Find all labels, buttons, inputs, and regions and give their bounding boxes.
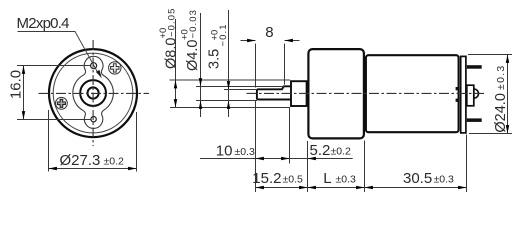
svg-text:10: 10 — [216, 142, 233, 159]
inner circle — [53, 53, 133, 133]
dim Ø24 line — [507, 55, 509, 134]
can crimp notch upper — [456, 87, 460, 90]
ext motor face vertical — [364, 141, 366, 193]
svg-text:±0.5: ±0.5 — [283, 174, 304, 186]
svg-text:±0.3: ±0.3 — [495, 64, 507, 90]
dim 15.2 arrow left — [256, 186, 264, 189]
svg-text:±0.3: ±0.3 — [235, 146, 256, 158]
svg-text:±0.3: ±0.3 — [336, 174, 357, 186]
dim 16.0 extension top — [17, 65, 90, 67]
dim L arrow left — [308, 186, 316, 189]
horizontal center line — [39, 92, 150, 94]
leader underline — [18, 32, 98, 73]
dim Ø27.3 line — [49, 168, 137, 170]
svg-text:−0.03: −0.03 — [188, 9, 199, 39]
svg-text:30.5: 30.5 — [403, 170, 432, 187]
svg-text:Ø27.3: Ø27.3 — [60, 152, 101, 169]
dim 30.5 arrow left — [365, 186, 373, 189]
ext shaft top — [196, 86, 284, 88]
dim 3.5 line — [228, 10, 230, 117]
dim 8 extension left — [255, 44, 257, 88]
dim 8 extension right — [284, 44, 286, 85]
dim 15.2 arrow right — [299, 186, 307, 189]
ext cap face vertical — [466, 135, 468, 193]
svg-text:±0.2: ±0.2 — [331, 145, 352, 157]
dim Ø8.0 line — [175, 19, 177, 108]
svg-text:Ø4.0: Ø4.0 — [185, 40, 201, 71]
dim 16.0 extension bottom — [17, 119, 91, 121]
dim Ø8.0 arrow up — [174, 80, 177, 88]
ext gearbox face vertical — [307, 141, 309, 192]
svg-text:Ø8.0: Ø8.0 — [164, 38, 180, 69]
dim 16.0 arrow down — [22, 111, 25, 119]
svg-text:L: L — [323, 170, 331, 187]
dim L arrow right — [356, 186, 364, 189]
ext shaft tip vertical — [255, 101, 257, 192]
dim 30.5 arrow right — [458, 186, 466, 189]
hub inner ring (shaft) — [88, 87, 99, 98]
side view center line — [247, 92, 487, 94]
ext collar end vertical — [289, 108, 291, 164]
can crimp notch lower — [456, 99, 460, 102]
leader arrowhead — [96, 70, 102, 78]
svg-text:±0.3: ±0.3 — [434, 174, 455, 186]
terminal tab bottom — [467, 118, 482, 122]
output shaft with flat — [257, 86, 291, 99]
dim Ø24 arrow up — [506, 55, 509, 63]
dim Ø8.0 arrow down — [174, 99, 177, 107]
dim 3.5 arrow bottom — [227, 101, 230, 109]
ext flat top — [224, 89, 257, 91]
svg-text:15.2: 15.2 — [252, 170, 281, 187]
dim 3.5 arrow top — [227, 81, 230, 89]
dim row1 line — [200, 158, 353, 160]
ext collar bottom — [170, 107, 290, 109]
svg-text:−0.1: −0.1 — [218, 23, 229, 46]
dim 16.0 line — [23, 66, 25, 120]
svg-text:8: 8 — [265, 24, 273, 41]
dim 16.0 arrow up — [22, 66, 25, 74]
ext collar top — [170, 79, 291, 81]
outer circle Ø27.3 — [49, 49, 137, 137]
svg-text:±0.2: ±0.2 — [104, 156, 125, 168]
M2 tapped hole top — [91, 63, 97, 69]
dim Ø4.0 arrow bottom — [199, 101, 202, 109]
svg-text:−0.05: −0.05 — [166, 7, 177, 37]
shaft collar Ø8 — [291, 81, 307, 106]
screw top-right — [109, 62, 121, 74]
dim row2 line — [256, 187, 467, 189]
oval boss outline — [73, 56, 114, 128]
dim 8 arrow left — [247, 39, 255, 42]
dim 10 arrow left — [256, 157, 264, 160]
dim Ø27.3 arrow right — [128, 167, 136, 170]
motor body Ø24 — [366, 55, 459, 132]
dim Ø4.0 arrow top — [199, 78, 202, 86]
rear bearing knob — [474, 89, 479, 98]
dim Ø24 arrow down — [506, 125, 509, 133]
dim 8 line left stub — [241, 40, 256, 42]
ext Ø24 top — [468, 54, 512, 56]
ext Ø24 bottom — [469, 133, 512, 135]
svg-text:16.0: 16.0 — [8, 70, 25, 99]
terminal tab top — [467, 65, 482, 69]
rear end cap — [461, 56, 466, 132]
dim Ø27.3 extension left — [48, 110, 50, 172]
ext shaft bottom — [196, 100, 257, 102]
dim 8 line right stub — [285, 40, 300, 42]
svg-text:5.2: 5.2 — [310, 142, 331, 159]
hub outer ring — [80, 80, 106, 106]
dim 8 arrow right — [285, 39, 293, 42]
rear boss — [467, 85, 474, 106]
svg-text:Ø24.0: Ø24.0 — [493, 93, 509, 133]
dim 5.2 arrow right — [308, 157, 316, 160]
svg-text:3.5: 3.5 — [206, 49, 222, 69]
vertical center line — [92, 40, 94, 146]
screw left — [56, 97, 68, 109]
dim Ø27.3 arrow left — [49, 167, 57, 170]
dim Ø4.0 line — [200, 13, 202, 117]
svg-text:M2xp0.4: M2xp0.4 — [17, 15, 70, 32]
dim Ø27.3 extension right — [136, 112, 138, 172]
dim 10 arrow right — [281, 157, 289, 160]
gearbox body — [308, 49, 364, 138]
M2 tapped hole bottom — [91, 117, 96, 122]
